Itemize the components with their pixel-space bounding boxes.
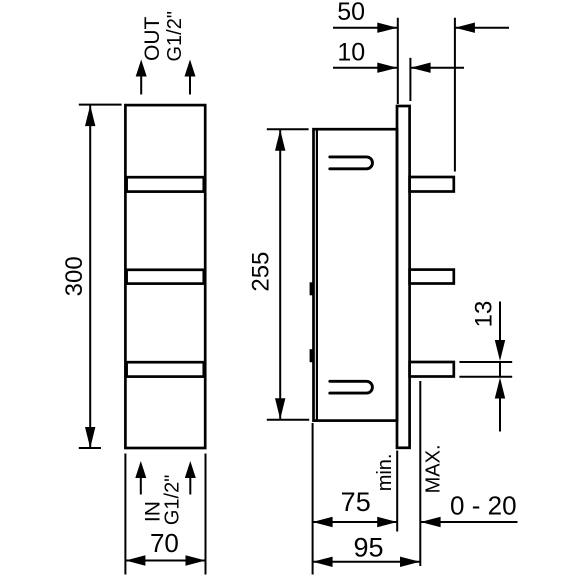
dimension 75 line (313, 521, 398, 523)
dimension 300 extension line bottom (79, 447, 101, 449)
dimension 13 extension bottom (459, 376, 512, 378)
dimension 70 arrow right (186, 555, 206, 565)
front band 1 (top outlet boss) (127, 177, 204, 191)
tab 2 (410, 270, 454, 284)
dimension 255 extension top (267, 128, 309, 130)
dimension 70 line (125, 560, 205, 562)
notch upper on body left edge (310, 282, 314, 295)
OUT arrow right (189, 75, 191, 95)
dimension 0-20 line (421, 521, 518, 523)
svg-text:255: 255 (248, 252, 275, 292)
dimension 13 arrow down (495, 340, 505, 361)
reference line max (419, 381, 421, 566)
slot top (330, 157, 373, 169)
mounting plate (397, 106, 410, 448)
valve body side outline (314, 129, 398, 420)
slot bottom (330, 381, 373, 393)
extension line plate back (409, 58, 411, 101)
dimension 50 arrow right-pointing (377, 23, 397, 33)
dimension 300 line (89, 105, 91, 448)
dimension 300 arrow down (85, 427, 95, 448)
svg-text:OUT: OUT (141, 16, 164, 61)
svg-text:MAX.: MAX. (423, 444, 445, 493)
dimension 255 extension bottom (267, 419, 309, 421)
notch lower on body left edge (310, 349, 314, 362)
dimension 10 line left tail (333, 67, 397, 69)
svg-text:G1/2": G1/2" (162, 475, 184, 525)
dimension 255 arrow up (275, 130, 285, 151)
dimension 50 arrow left-pointing (455, 23, 475, 33)
front band 2 (middle boss) (127, 270, 204, 284)
tab 1 (410, 177, 454, 192)
svg-text:G1/2": G1/2" (164, 11, 186, 61)
dimension 50 line left tail (333, 27, 397, 29)
svg-text:75: 75 (341, 487, 371, 517)
dimension 50 line right tail (455, 27, 509, 29)
dimension 10 arrow right-pointing (377, 63, 397, 73)
svg-text:13: 13 (470, 301, 497, 328)
dimension 255 line (279, 130, 281, 420)
svg-text:0 - 20: 0 - 20 (450, 491, 517, 521)
svg-text:min.: min. (374, 454, 396, 492)
IN arrow right (189, 478, 191, 495)
extension line plate front (397, 18, 399, 104)
valve body front outline (125, 105, 205, 448)
reference line body left (312, 423, 314, 575)
svg-text:10: 10 (337, 39, 365, 67)
IN arrow left (140, 478, 142, 495)
dimension 13 lower shaft (499, 397, 501, 432)
dimension 95 arrow right (400, 557, 420, 567)
front band 3 (bottom inlet boss) (127, 362, 204, 376)
dimension 0-20 arrow left-pointing (421, 517, 441, 527)
dimension 95 line (313, 561, 420, 563)
svg-text:50: 50 (337, 0, 365, 26)
dimension 13 upper shaft (499, 302, 501, 343)
svg-text:70: 70 (150, 528, 179, 558)
dimension 95 arrow left (313, 557, 333, 567)
svg-text:95: 95 (353, 532, 383, 562)
svg-text:300: 300 (61, 256, 88, 296)
dimension 13 extension top (459, 361, 512, 363)
dimension 70 extension line left (124, 454, 126, 575)
dimension 10 line right tail (411, 67, 464, 69)
dimension 75 arrow left (313, 517, 333, 527)
dimension 70 extension line right (205, 454, 207, 575)
dimension 13 arrow up (495, 378, 505, 399)
reference line min (plate face) (396, 451, 398, 532)
dimension 300 extension line top (79, 104, 122, 106)
body inner wall line (316, 129, 318, 420)
dimension 255 arrow down (275, 398, 285, 419)
tab 3 (410, 362, 454, 377)
OUT arrow left (140, 75, 142, 95)
extension line tab end (454, 18, 456, 172)
dimension 300 arrow up (85, 105, 95, 126)
dimension 10 arrow left-pointing (411, 63, 431, 73)
dimension 70 arrow left (125, 555, 145, 565)
dimension 75 arrow right (377, 517, 397, 527)
